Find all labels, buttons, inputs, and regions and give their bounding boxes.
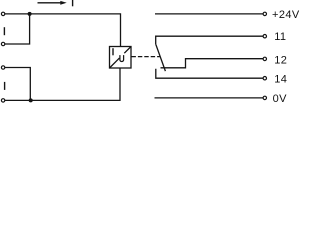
label I: arrow current (clipped at top edge)	[72, 0, 74, 6]
terminal: 12	[263, 57, 266, 60]
terminal: 11	[263, 35, 266, 38]
wire: converter output bottom loop	[5, 68, 120, 100]
terminal: 0V	[263, 96, 266, 99]
svg-text:14: 14	[274, 73, 287, 85]
wire: terminal 14 line with NO contact post	[156, 69, 263, 78]
wire: 0V supply line	[155, 97, 264, 99]
svg-text:12: 12	[274, 54, 287, 66]
label I: current at top input pair	[3, 27, 5, 35]
svg-text:0V: 0V	[273, 93, 288, 105]
wire: terminal 11 line with contact common stub	[156, 36, 263, 44]
terminal: input - (top pair)	[1, 42, 4, 45]
wire: top input wire to converter	[5, 14, 121, 47]
terminal: output + (bottom pair)	[1, 66, 4, 69]
svg-text:+24V: +24V	[272, 9, 300, 21]
wire: second input terminal link	[5, 14, 30, 44]
label I: current at bottom pair	[4, 82, 6, 90]
terminal: input + (top)	[1, 12, 4, 15]
node: output junction	[29, 98, 33, 102]
node: input junction	[28, 12, 32, 16]
terminal: 14	[263, 77, 266, 80]
terminal: output - (bottom)	[1, 99, 4, 102]
current arrow I	[38, 1, 67, 5]
svg-text:11: 11	[274, 31, 286, 43]
terminal: +24V	[263, 12, 266, 15]
wire: bottom pair terminal link	[5, 68, 30, 101]
op-amp U1: I/U converter box	[110, 47, 132, 69]
label I: converter input quantity	[112, 48, 114, 55]
label U: converter output quantity	[120, 55, 124, 61]
wire: +24V supply line	[155, 13, 263, 15]
relay contact arm (changeover common)	[156, 45, 166, 72]
wire: terminal 12 line with NC contact plate	[161, 59, 264, 68]
wire: dashed actuation link from converter	[132, 56, 160, 58]
